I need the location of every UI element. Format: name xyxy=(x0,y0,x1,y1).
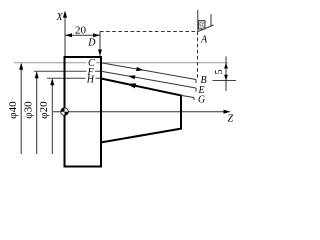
svg-text:φ40: φ40 xyxy=(7,101,19,119)
svg-text:G: G xyxy=(198,94,205,105)
svg-text:5: 5 xyxy=(214,70,225,75)
svg-text:X: X xyxy=(56,12,64,23)
svg-text:Z: Z xyxy=(228,114,234,125)
svg-text:φ20: φ20 xyxy=(38,101,50,119)
svg-text:A: A xyxy=(200,35,208,46)
svg-text:D: D xyxy=(87,38,96,49)
svg-text:φ30: φ30 xyxy=(23,101,35,119)
svg-text:20: 20 xyxy=(75,24,87,36)
svg-text:H: H xyxy=(86,75,95,86)
